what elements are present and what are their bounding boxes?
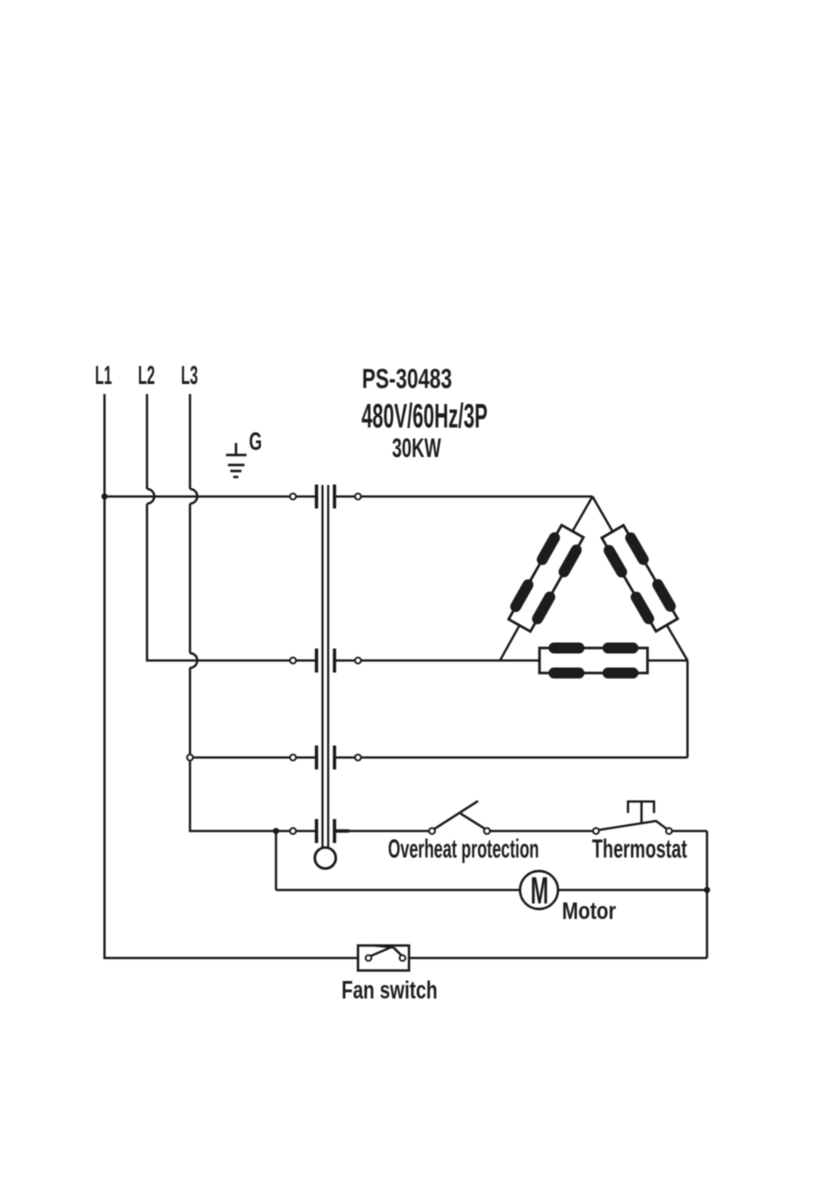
delta right corner drop wire bbox=[686, 661, 688, 758]
svg-text:PS-30483: PS-30483 bbox=[362, 363, 452, 394]
heating element E3 (bottom) bbox=[540, 643, 648, 679]
svg-text:L1: L1 bbox=[95, 360, 112, 390]
svg-text:Motor: Motor bbox=[562, 898, 616, 925]
motor circle U1 bbox=[520, 871, 558, 909]
fan switch box bbox=[358, 946, 409, 971]
junction dot row4 motor branch bbox=[273, 828, 279, 834]
wire row3 contact K3 to delta right bbox=[335, 756, 688, 758]
ground symbol bbox=[226, 443, 247, 477]
svg-text:L3: L3 bbox=[181, 360, 198, 390]
wire L1 vertical bbox=[105, 394, 359, 958]
wire row3 from L3 tap to contact K3 bbox=[190, 756, 317, 758]
contactor coil circle bbox=[315, 848, 336, 869]
delta left side wire bbox=[500, 497, 593, 661]
contactor contact K1 bbox=[317, 485, 335, 509]
svg-text:Overheat protection: Overheat protection bbox=[388, 834, 539, 864]
delta bottom side wire bbox=[500, 659, 688, 661]
contactor contact K2 bbox=[317, 649, 335, 673]
svg-text:Thermostat: Thermostat bbox=[592, 834, 687, 864]
svg-text:30KW: 30KW bbox=[392, 433, 441, 463]
wire motor branch vertical bbox=[275, 831, 277, 890]
heating element E2 (right slant) bbox=[597, 523, 682, 634]
overheat protection terminals bbox=[429, 828, 435, 834]
wire row1 L1 to contact K1 bbox=[105, 495, 317, 497]
overheat protection switch blade bbox=[434, 801, 487, 830]
junction dot L1 row1 bbox=[101, 493, 107, 499]
svg-text:480V/60Hz/3P: 480V/60Hz/3P bbox=[362, 397, 488, 435]
contact K3 terminal rings bbox=[290, 755, 296, 761]
heating element E1 (left slant) bbox=[504, 522, 588, 634]
thermostat push actuator bbox=[628, 802, 654, 823]
thermostat switch blade bbox=[599, 821, 668, 830]
contact K2 terminal rings bbox=[290, 658, 296, 664]
fan switch blade bbox=[370, 946, 402, 957]
contactor contact K3 bbox=[317, 746, 335, 770]
svg-text:Fan switch: Fan switch bbox=[342, 977, 438, 1005]
wire right rail vertical bbox=[706, 831, 708, 958]
fan switch terminals bbox=[366, 955, 372, 961]
thermostat terminals bbox=[593, 828, 599, 834]
wire motor row right bbox=[558, 889, 707, 891]
contact K1 terminal rings bbox=[290, 494, 296, 500]
contact K4 right stub bbox=[335, 829, 350, 832]
wire L3 vertical (hops over row1,row2) bbox=[190, 394, 317, 831]
contactor contact K4 bbox=[317, 819, 335, 843]
wire motor row left bbox=[276, 889, 520, 891]
svg-text:L2: L2 bbox=[138, 360, 155, 390]
delta right side wire bbox=[593, 497, 688, 661]
junction dot right rail motor row bbox=[704, 887, 710, 893]
svg-text:G: G bbox=[249, 428, 262, 456]
wire fan switch interior stubs bbox=[358, 957, 409, 959]
wire fan row right of switch bbox=[409, 957, 707, 959]
node ring L3 row3 tap bbox=[187, 755, 193, 761]
wire row4 contact K4 to overheat switch bbox=[335, 830, 433, 832]
wire row4 overheat to thermostat bbox=[487, 830, 596, 832]
wire row1 contact K1 to delta apex bbox=[335, 495, 593, 497]
contactor link lines bbox=[323, 485, 329, 848]
svg-text:M: M bbox=[531, 871, 549, 913]
wire row2 contact K2 to delta corner bbox=[335, 659, 501, 661]
wire L2 vertical (hop over row1) bbox=[147, 394, 317, 661]
wire row4 thermostat to right rail bbox=[669, 830, 707, 832]
contact K4 terminal ring bbox=[290, 828, 296, 834]
